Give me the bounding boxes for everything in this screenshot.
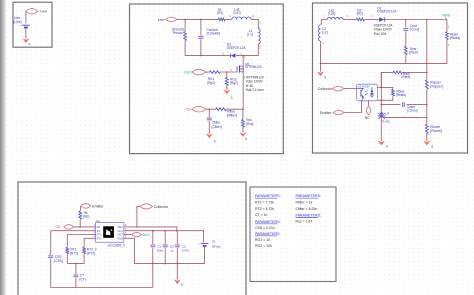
optocoupler U2 — [357, 84, 378, 101]
off-page connector Emitter (box4) — [81, 204, 105, 209]
svg-text:0: 0 — [231, 96, 233, 100]
svg-text:Live: Live — [14, 16, 20, 20]
capacitor Cfilter branch — [207, 109, 212, 133]
transistor M1 (MOSFET) — [237, 65, 243, 72]
svg-text:DSEP29-12A: DSEP29-12A — [377, 10, 397, 14]
inductor La2 — [327, 18, 343, 20]
off-page connector Emitter (box3) — [320, 110, 344, 115]
svg-text:{R1}: {R1} — [217, 11, 223, 15]
pin number La2 right — [347, 14, 349, 18]
off-page connector Collector (box3) — [318, 86, 344, 91]
wire R1 to La1 — [225, 18, 232, 20]
svg-text:UCCx809_2: UCCx809_2 — [108, 243, 126, 247]
svg-text:Live: Live — [158, 18, 164, 22]
resistor R1 — [218, 18, 225, 21]
svg-text:1u: 1u — [170, 248, 174, 252]
svg-text:Emitter: Emitter — [92, 204, 104, 208]
svg-text:0.47u: 0.47u — [182, 248, 190, 252]
wire Vavg to Rload — [446, 20, 448, 32]
junction ref/divider — [426, 117, 428, 119]
label Csnubb — [207, 28, 221, 36]
svg-text:Live: Live — [40, 10, 47, 14]
svg-text:Rcs = 1.67: Rcs = 1.67 — [296, 220, 313, 224]
note M1 ratings — [244, 76, 264, 93]
svg-text:VCC: VCC — [117, 229, 123, 233]
wire R2 to D1 — [364, 19, 378, 21]
label Rfilter — [227, 109, 237, 117]
wire source to sense node — [242, 72, 244, 109]
svg-text:Rsnub: Rsnub — [173, 31, 183, 35]
capacitor C3 branch — [175, 231, 180, 264]
wire divider to Rled — [402, 71, 427, 73]
svg-text:Rfilter = 1k: Rfilter = 1k — [296, 201, 313, 205]
svg-text:{Czero}: {Czero} — [407, 109, 418, 113]
battery V1 20Vdc — [198, 242, 208, 246]
svg-text:U2 4N25A: U2 4N25A — [358, 85, 370, 89]
capacitor Czero row — [381, 102, 427, 107]
diode D1 — [379, 17, 385, 21]
svg-text:{R2}: {R2} — [357, 12, 363, 16]
wire Emitter to opto — [344, 101, 362, 113]
wire D1 to output node — [385, 19, 447, 21]
label Re — [83, 211, 89, 219]
label Live {Live} — [13, 16, 22, 24]
IC U1 UCCx809_2 controller — [92, 223, 129, 243]
label CT — [79, 274, 85, 282]
label Rsnub — [172, 27, 185, 35]
svg-text:{L2}: {L2} — [322, 30, 328, 34]
wire GND pin down — [128, 238, 134, 263]
wire return rail — [321, 63, 447, 65]
capacitor CT branch — [73, 264, 78, 288]
svg-text:{Cout}: {Cout} — [410, 28, 419, 32]
label U1 — [96, 219, 100, 223]
wire TL431 ref to divider — [384, 117, 427, 119]
off-page connector CS (box2) — [186, 106, 206, 112]
ground 0 (box1) — [22, 37, 30, 47]
svg-text:IFav 30A: IFav 30A — [374, 32, 388, 36]
ground 0 (Cfilter) — [206, 132, 216, 143]
junctions cap taps — [152, 230, 166, 232]
svg-text:{Cfilter}: {Cfilter} — [211, 125, 221, 129]
svg-text:{Rled}: {Rled} — [401, 75, 410, 79]
svg-text:FB: FB — [97, 225, 101, 229]
junction Cout top — [405, 19, 407, 21]
svg-text:PARAMETERS:: PARAMETERS: — [296, 213, 322, 217]
diode D2 — [230, 53, 235, 57]
label D1 DSEP29-12A — [377, 6, 397, 13]
resistor RG1 — [210, 71, 221, 74]
wire opto cathode stub — [377, 99, 381, 101]
svg-text:RT2 = 8.72k: RT2 = 8.72k — [255, 207, 274, 211]
svg-text:CS: CS — [186, 108, 191, 112]
label Resr — [409, 47, 418, 55]
schematic block frame (power stage) — [130, 4, 284, 154]
inductor L2 — [318, 25, 320, 41]
resistor R2 — [356, 18, 364, 21]
junction return/ground — [320, 63, 322, 65]
svg-text:GND: GND — [117, 236, 123, 240]
ground 0 (box3 left) — [317, 64, 326, 80]
wire OUT to Rg1 — [206, 71, 210, 73]
svg-text:{Csnubb}: {Csnubb} — [207, 31, 221, 35]
wire Live rail left — [177, 18, 218, 20]
off-page connector Collector (box4) — [140, 204, 169, 209]
svg-text:Vmax 1200V: Vmax 1200V — [374, 28, 393, 32]
wire rail to ground symbol — [176, 264, 178, 280]
wire Re to FB — [79, 219, 81, 227]
resistor Rfilter — [216, 108, 227, 111]
svg-text:PARAMETERS:: PARAMETERS: — [255, 232, 281, 236]
label C1 100n — [157, 244, 164, 252]
label Rupper — [430, 81, 443, 89]
svg-text:{CSS}: {CSS} — [54, 259, 63, 263]
label L2 — [322, 27, 328, 34]
svg-text:DSEP29-12A: DSEP29-12A — [227, 46, 247, 50]
wire CS to filter — [206, 108, 216, 110]
wire opto to NC — [368, 101, 370, 106]
ground 0 (Rlower) — [423, 139, 433, 149]
junction opto pins — [381, 87, 383, 102]
svg-text:{La1}: {La1} — [234, 11, 241, 15]
wire opto anode stub — [377, 86, 381, 88]
wire+resistor Rcs branch — [242, 109, 245, 132]
svg-text:CS: CS — [55, 225, 60, 229]
junction gate node — [226, 71, 228, 73]
wire La2 to R2 — [343, 19, 356, 21]
label RG2 — [230, 77, 238, 85]
label Cout — [410, 24, 419, 32]
off-page connector Live (box1) — [26, 9, 47, 14]
label Rload — [450, 32, 460, 40]
svg-text:PARAMETERS:: PARAMETERS: — [255, 194, 281, 198]
label L1 — [247, 29, 253, 36]
label CSS — [54, 255, 63, 263]
off-page connector CS (box4) — [55, 225, 73, 230]
label La1 — [234, 7, 241, 14]
wire+resistor Rsnub branch — [184, 19, 187, 55]
svg-text:{Live}: {Live} — [13, 20, 22, 24]
wire CS to chip pin1 — [74, 226, 92, 228]
label Rbias — [396, 90, 406, 98]
svg-text:OUT: OUT — [117, 233, 123, 237]
svg-text:{RT1}: {RT1} — [70, 252, 78, 256]
svg-text:{L1}: {L1} — [247, 32, 253, 36]
svg-text:Collector: Collector — [318, 87, 333, 91]
svg-text:U3: U3 — [385, 111, 389, 115]
svg-text:{RT2}: {RT2} — [87, 252, 95, 256]
svg-text:0: 0 — [431, 145, 433, 149]
svg-text:REF: REF — [118, 225, 124, 229]
ground 0 (box4) — [174, 278, 183, 287]
junction REF to VCC rail — [176, 230, 178, 232]
schematic block frame (Live source) — [13, 2, 52, 47]
shunt regulator U3 TL431 — [378, 111, 386, 119]
wire Rg1 to gate — [220, 71, 237, 73]
resistor Rload — [446, 32, 449, 40]
wire Rupper to Rlower — [426, 89, 428, 124]
svg-text:IXTP8N120: IXTP8N120 — [245, 65, 262, 69]
svg-text:PARAMETERS:: PARAMETERS: — [255, 220, 281, 224]
ground 0 (TL431) — [378, 139, 388, 148]
wire TL431 anode to ground — [380, 116, 382, 141]
svg-text:Rds 2.4 ohm: Rds 2.4 ohm — [246, 88, 264, 92]
junction Csnubb bottom — [200, 55, 202, 57]
junction CT tap — [75, 263, 77, 265]
label RG1 — [207, 77, 215, 85]
wire Collector down — [137, 206, 140, 227]
wire L1 down to diode — [236, 44, 258, 56]
junction Re/FB — [79, 226, 81, 228]
inductor L1 — [258, 29, 260, 44]
wire bottom rail up to ground rail — [152, 264, 154, 288]
capacitor C2 branch — [163, 231, 168, 264]
svg-text:0: 0 — [214, 139, 216, 143]
svg-text:SS: SS — [97, 229, 101, 233]
label RT2_2 — [87, 248, 97, 256]
svg-text:RT1 = 7.72k: RT1 = 7.72k — [255, 201, 274, 205]
label R2 — [357, 9, 363, 16]
junction Live/Rsnub — [184, 19, 186, 21]
svg-text:NC: NC — [365, 116, 370, 120]
wire REF rail — [128, 227, 177, 231]
svg-text:0: 0 — [245, 137, 247, 141]
junction Rled/divider — [426, 72, 428, 74]
svg-text:RT1: RT1 — [97, 233, 102, 237]
pin number D1 left — [372, 14, 374, 18]
off-page connector Live (box2) — [158, 17, 177, 22]
label C3 0.47u — [182, 244, 190, 252]
label Rled — [401, 72, 410, 79]
svg-text:{Rg2}: {Rg2} — [230, 81, 238, 85]
resistor Rlower — [425, 124, 428, 141]
ground 0 (Rcs) — [239, 131, 247, 141]
left window edge strip — [0, 0, 6, 295]
svg-text:CSS = 0.01u: CSS = 0.01u — [255, 226, 275, 230]
svg-text:{Resr}: {Resr} — [409, 51, 418, 55]
junction drain node — [242, 55, 244, 57]
parameters list left column — [255, 194, 281, 248]
junctions ground rail — [152, 263, 178, 265]
pin numbers M1 — [230, 56, 246, 72]
svg-text:{CT}: {CT} — [79, 278, 85, 282]
wire drain — [242, 56, 244, 67]
off-page connector OUT (box2) — [184, 69, 206, 75]
svg-text:0: 0 — [386, 145, 388, 149]
label RT1 — [70, 248, 78, 256]
wire Rfilter to Rcs — [226, 108, 243, 110]
schematic block frame (output stage) — [313, 3, 468, 153]
wire V source to ground — [25, 28, 27, 39]
label V1 20Vdc — [212, 240, 221, 249]
svg-text:Collector: Collector — [154, 205, 169, 209]
junction Czero right — [426, 104, 428, 106]
wire La1 to L1 — [251, 19, 258, 28]
svg-text:{Rlower}: {Rlower} — [430, 129, 442, 133]
label Rcs — [246, 118, 254, 126]
capacitor C1 branch — [150, 231, 155, 264]
wire top-left corner — [321, 20, 327, 25]
resistor RT2_2 branch — [83, 238, 86, 263]
pin numbers L1 — [259, 20, 262, 49]
svg-text:0: 0 — [324, 76, 326, 80]
resistor Rled — [393, 71, 402, 74]
svg-text:Cfilter = 8.25n: Cfilter = 8.25n — [296, 207, 318, 211]
svg-text:{Rbias}: {Rbias} — [396, 93, 406, 97]
svg-text:RG1 = 10: RG1 = 10 — [255, 238, 270, 242]
svg-text:100n: 100n — [157, 248, 164, 252]
resistor Rbias loop — [381, 87, 394, 100]
svg-text:Cfilter: Cfilter — [212, 120, 221, 124]
inductor La1 — [232, 17, 251, 19]
junction Czero left — [381, 104, 383, 106]
svg-text:PARAMETERS:: PARAMETERS: — [296, 194, 322, 198]
wire L2 to return rail — [320, 41, 322, 64]
svg-text:Vdss 1200V: Vdss 1200V — [246, 80, 264, 84]
label C2 1u — [170, 244, 174, 252]
wire chip pin3 — [67, 234, 91, 236]
wire VCC rail to V1 — [128, 231, 203, 243]
wire output to divider — [426, 20, 428, 73]
net label Vavg — [442, 12, 451, 20]
pin number L2 bottom — [322, 41, 324, 45]
wire chip pin4 — [84, 237, 91, 239]
label La2 — [328, 9, 335, 16]
wire RT bottoms — [67, 263, 84, 265]
parameters block frame — [250, 187, 336, 282]
no-connect bubble NC — [365, 106, 371, 120]
pin numbers D2 — [222, 51, 242, 55]
junction divider top — [426, 19, 428, 21]
label R1 — [217, 8, 223, 15]
wire chip pin2 — [51, 230, 92, 232]
wire diode to snubber bottom — [185, 55, 230, 57]
wire Collector to opto — [344, 88, 357, 90]
svg-text:OUT: OUT — [142, 233, 149, 237]
svg-text:{Rload}: {Rload} — [450, 36, 460, 40]
resistor Re — [79, 211, 82, 219]
ground 0 (RG2) — [223, 88, 232, 100]
pin numbers Rload — [448, 25, 450, 47]
wire Rload to return rail — [446, 40, 448, 64]
svg-text:Emitter: Emitter — [320, 111, 332, 115]
svg-text:TL431: TL431 — [382, 120, 391, 124]
resistor RT1 branch — [66, 235, 69, 264]
capacitor Cout branch — [403, 20, 408, 47]
junction Live/Csnubb — [200, 19, 202, 21]
svg-text:{La2}: {La2} — [328, 12, 335, 16]
pin number L2 top — [323, 14, 325, 18]
svg-text:RG2 = 10k: RG2 = 10k — [255, 244, 272, 248]
capacitor CSS branch — [48, 231, 53, 288]
wire V1 to ground rail — [204, 246, 206, 264]
junction Cfilter top — [209, 108, 211, 110]
svg-text:U1: U1 — [96, 219, 100, 223]
svg-text:{Rg1}: {Rg1} — [207, 81, 215, 85]
svg-text:{Re}: {Re} — [83, 214, 89, 218]
off-page connector OUT (box4) — [128, 233, 150, 238]
note D1 ratings — [374, 23, 394, 36]
pin numbers La1 — [229, 14, 254, 18]
capacitor Csnubb branch — [198, 19, 203, 55]
voltage source V Live — [20, 23, 30, 27]
svg-text:{Rcs}: {Rcs} — [246, 122, 254, 126]
svg-text:V1: V1 — [212, 240, 216, 244]
wire anode/cathode vertical — [380, 72, 382, 118]
wire Emitter to Re — [79, 206, 82, 211]
label Cfilter — [211, 120, 221, 129]
label Czero — [407, 105, 418, 113]
label U3 TL431 — [382, 111, 391, 123]
label Rlower — [430, 125, 442, 133]
label D2 DSEP29-12A — [227, 43, 247, 50]
schematic block frame (controller) — [18, 182, 246, 295]
svg-text:{Rupper}: {Rupper} — [430, 85, 443, 89]
svg-text:Vavg: Vavg — [442, 12, 451, 17]
svg-text:0: 0 — [181, 283, 183, 287]
svg-text:0: 0 — [29, 42, 31, 46]
resistor Resr — [404, 46, 407, 63]
svg-text:CT = 1n: CT = 1n — [255, 213, 268, 217]
wire bottom return rail — [51, 287, 153, 289]
junction Collector/REF wire — [136, 226, 138, 228]
parameters list right column — [296, 194, 322, 223]
svg-text:RT2: RT2 — [97, 236, 102, 240]
label UCCx809_2 — [108, 243, 126, 247]
svg-text:OUT: OUT — [184, 71, 191, 75]
svg-text:20Vdc: 20Vdc — [212, 244, 221, 248]
junction Rcs top — [242, 108, 244, 110]
wire+resistor RG2 branch — [225, 72, 228, 90]
resistor Rupper — [425, 72, 428, 89]
wire bubble to V source — [25, 11, 27, 23]
wire ground rail (box4) — [134, 263, 204, 265]
label M1 IXTP8N120 — [245, 62, 262, 69]
svg-text:{Rfilter}: {Rfilter} — [227, 113, 237, 117]
wire Rled to opto anode — [381, 72, 393, 87]
